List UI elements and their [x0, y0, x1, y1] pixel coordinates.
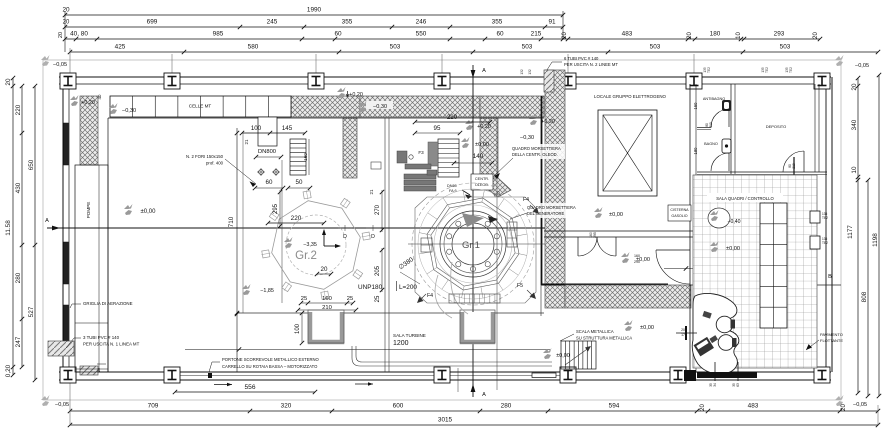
svg-text:CARRELLO SU ROTAIA BASSA – MOT: CARRELLO SU ROTAIA BASSA – MOTORIZZATO	[222, 364, 318, 369]
svg-text:CELLE MT: CELLE MT	[189, 104, 212, 109]
hatched pipe block outside left wall	[48, 341, 74, 356]
bagno wc	[722, 139, 731, 153]
svg-text:60: 60	[334, 31, 342, 38]
svg-text:140: 140	[473, 153, 484, 160]
column blob sala quadri	[708, 208, 730, 228]
svg-text:21: 21	[369, 189, 374, 194]
svg-text:−0,30: −0,30	[520, 135, 534, 141]
bottom dim total 3015	[68, 417, 880, 428]
top wall column 6	[686, 73, 702, 89]
text dn80	[447, 184, 472, 199]
wall junction block	[684, 370, 696, 381]
aeration grille 1	[64, 123, 69, 165]
right wall	[826, 77, 832, 372]
svg-text:580: 580	[248, 44, 259, 51]
wall box te2 a	[810, 211, 828, 223]
tiny dim 20 bottom left	[97, 364, 106, 372]
text sala turbine	[393, 333, 426, 347]
svg-text:±0,00: ±0,00	[609, 212, 623, 218]
label 80 210 b	[788, 163, 796, 169]
tiny label left top 1	[520, 69, 524, 75]
svg-text:160: 160	[303, 153, 308, 161]
svg-text:20: 20	[687, 32, 693, 39]
text deposito	[766, 124, 787, 129]
svg-text:100: 100	[251, 125, 262, 132]
dim 100 rot	[295, 311, 304, 345]
level line bottom hall	[185, 347, 550, 351]
svg-text:100: 100	[295, 323, 301, 334]
hatched leg between bays	[343, 118, 357, 178]
svg-text:6 TUBI PVC # 140: 6 TUBI PVC # 140	[564, 56, 599, 61]
section line B-B horizontal	[690, 274, 841, 285]
svg-text:20: 20	[851, 83, 858, 91]
svg-text:+0,20: +0,20	[81, 100, 95, 106]
svg-text:699: 699	[147, 19, 158, 26]
svg-text:145: 145	[282, 125, 293, 132]
svg-text:340: 340	[851, 119, 858, 130]
dimension row 2	[63, 19, 565, 30]
left dim chain outer	[28, 84, 37, 382]
svg-text:+0,20: +0,20	[349, 92, 363, 98]
label 60 rot	[492, 190, 502, 200]
svg-text:PAVIMENTO: PAVIMENTO	[820, 332, 843, 337]
bottom dim 556	[173, 383, 317, 395]
svg-text:SCALA METALLICA: SCALA METALLICA	[576, 329, 614, 334]
svg-text:TE2: TE2	[765, 67, 769, 73]
svg-text:20: 20	[58, 32, 64, 38]
door rail arrow right	[355, 382, 373, 386]
text 3 tubi pvc	[66, 335, 140, 348]
svg-text:280: 280	[501, 403, 512, 410]
svg-text:FA 6: FA 6	[449, 189, 457, 193]
svg-text:25: 25	[301, 296, 307, 302]
svg-text:160: 160	[634, 254, 640, 258]
label +0,20 band c	[529, 114, 555, 125]
text 6 tubi pvc top	[547, 56, 618, 70]
pit Gr2	[308, 310, 344, 343]
svg-text:247: 247	[15, 336, 22, 347]
svg-text:−3,35: −3,35	[303, 242, 317, 248]
niche DN800	[254, 117, 283, 159]
svg-text:+0,20: +0,20	[541, 119, 555, 125]
dim connector left end	[65, 11, 563, 74]
label F4 tr	[523, 197, 539, 214]
svg-text:N. 2 FORI 150x150: N. 2 FORI 150x150	[186, 154, 224, 159]
svg-text:ANTIBAGNO: ANTIBAGNO	[703, 97, 725, 101]
svg-text:F4: F4	[427, 293, 433, 299]
hatched block bottom near pompe	[80, 366, 98, 375]
text pavimento flottante	[806, 332, 843, 350]
svg-text:20: 20	[97, 368, 101, 372]
label +0,20 band a	[337, 87, 363, 98]
svg-text:60: 60	[266, 179, 273, 186]
door locale double	[578, 237, 616, 256]
label -0,30 celle	[109, 103, 136, 114]
svg-text:1198: 1198	[872, 233, 879, 247]
svg-text:±0,00: ±0,00	[726, 246, 740, 252]
svg-text:503: 503	[780, 44, 791, 51]
svg-text:A: A	[45, 218, 49, 224]
gr1 bottom beam	[449, 294, 500, 303]
svg-text:F5: F5	[517, 283, 523, 289]
svg-text:FLOTTANTE: FLOTTANTE	[820, 338, 843, 343]
gr1 gray arrow	[462, 213, 498, 227]
axis marker gr2	[322, 229, 341, 248]
label diam 380	[397, 256, 420, 284]
door size 165-290	[634, 254, 698, 271]
svg-text:20: 20	[841, 404, 847, 411]
tiny label te2 top 1	[703, 67, 711, 73]
svg-text:20: 20	[5, 78, 12, 86]
svg-text:DN80: DN80	[447, 184, 457, 188]
dim 50 gr2	[286, 179, 312, 190]
svg-text:±0,00: ±0,00	[141, 209, 157, 215]
antibagno sink	[722, 100, 731, 111]
label 0,00 corridor	[621, 252, 650, 263]
thick wall face line bottom	[541, 285, 668, 317]
svg-text:215: 215	[531, 31, 542, 38]
right dim chain mid	[861, 178, 870, 398]
label 0,00 locale	[594, 207, 623, 218]
svg-text:A: A	[482, 68, 486, 74]
label +0,00 gr1	[461, 137, 489, 148]
svg-text:20: 20	[321, 266, 328, 273]
dim 295 rot	[273, 190, 282, 228]
svg-text:246: 246	[416, 19, 427, 26]
tiny label te2 top 3	[785, 67, 793, 73]
hatched wall L bottom	[565, 285, 691, 308]
svg-text:DELLA CENTR. OLEOD.: DELLA CENTR. OLEOD.	[512, 152, 558, 157]
svg-text:prof. 400: prof. 400	[206, 161, 224, 166]
svg-text:556: 556	[244, 384, 255, 391]
hatched pier top 6 tubi	[544, 70, 554, 92]
holes fori 150x150	[257, 168, 280, 176]
text scala metallica	[560, 329, 632, 341]
turbine group Gr.1	[412, 183, 534, 305]
svg-text:+0,20: +0,20	[477, 124, 491, 130]
svg-text:483: 483	[622, 31, 633, 38]
cabinet row	[760, 203, 787, 328]
svg-text:280: 280	[15, 272, 22, 283]
svg-text:20: 20	[63, 20, 70, 26]
svg-text:SU STRUTTURA METALLICA: SU STRUTTURA METALLICA	[576, 336, 632, 341]
svg-text:SALA TURBINE: SALA TURBINE	[393, 333, 426, 338]
vertical line x237 (dim 710)	[228, 128, 243, 372]
svg-text:710: 710	[228, 216, 235, 227]
svg-text:−0,30: −0,30	[373, 104, 387, 110]
svg-text:Gr.1: Gr.1	[462, 240, 480, 251]
svg-text:985: 985	[213, 31, 224, 38]
stairs metal bottom	[561, 341, 596, 369]
label 80 210 a	[705, 122, 713, 128]
pit Gr1	[460, 310, 495, 343]
dim 140 gr1	[452, 153, 494, 165]
bottom wall column 1	[60, 367, 76, 383]
svg-text:550: 550	[416, 31, 427, 38]
text griglia di aerazione	[70, 301, 133, 308]
svg-text:527: 527	[28, 306, 35, 317]
text antibagno	[703, 97, 725, 101]
svg-text:±0,00: ±0,00	[640, 325, 654, 331]
door bagno	[711, 153, 729, 171]
gr1 right plates	[507, 222, 517, 247]
bottom wall column 5	[670, 367, 686, 383]
svg-text:650: 650	[28, 159, 35, 170]
dim 95 gr1	[413, 125, 462, 135]
bay outline Gr1	[415, 197, 536, 303]
gr1 left anchor	[421, 238, 432, 252]
svg-text:220: 220	[15, 104, 22, 115]
threshold mark left wall	[676, 326, 697, 340]
label 180 rot	[693, 147, 698, 155]
svg-text:355: 355	[492, 19, 503, 26]
svg-text:D: D	[371, 234, 375, 240]
svg-text:50: 50	[296, 179, 303, 186]
svg-text:295: 295	[273, 203, 279, 214]
box centr oleod	[471, 174, 493, 190]
vertical rail pair	[385, 118, 389, 372]
svg-text:QUADRO MORSETTIERA: QUADRO MORSETTIERA	[512, 146, 561, 151]
svg-text:160: 160	[322, 296, 332, 302]
section line A-A horizontal	[45, 218, 545, 230]
wall box te2 b	[810, 236, 828, 249]
left dim chain inner	[5, 76, 15, 377]
svg-text:180: 180	[710, 31, 721, 38]
aeration grille 3	[64, 305, 69, 347]
hatched band center	[360, 96, 480, 117]
turbine group Gr.2 future octagon	[261, 190, 370, 299]
top wall column 3	[308, 73, 324, 89]
svg-text:GASOLIO: GASOLIO	[671, 214, 687, 218]
dim 20 gr2	[315, 266, 333, 276]
svg-text:21: 21	[244, 139, 249, 144]
top wall	[59, 77, 831, 84]
svg-text:430: 430	[15, 182, 22, 193]
genset box	[598, 110, 657, 196]
svg-text:BAGNO: BAGNO	[704, 142, 718, 146]
label 0,00 corridor right	[624, 320, 654, 331]
svg-text:−1,85: −1,85	[260, 288, 274, 294]
text quadro morsettiera generatore	[510, 203, 576, 219]
svg-text:F4: F4	[523, 197, 529, 203]
text quadro morsettiera oleod	[494, 144, 565, 179]
right dim chain outer	[872, 73, 881, 398]
svg-text:1200: 1200	[393, 340, 409, 347]
bottom wall column 6	[814, 367, 830, 383]
svg-text:34: 34	[713, 383, 717, 387]
svg-text:D: D	[343, 234, 347, 240]
left dim chain mid	[15, 84, 24, 369]
svg-text:−0,05: −0,05	[853, 402, 867, 408]
label -0,40	[727, 219, 740, 225]
grid connector lines top	[172, 54, 694, 74]
room locale gruppo walls	[544, 84, 696, 372]
top wall column 1	[60, 73, 76, 89]
label 202	[681, 328, 687, 337]
svg-text:GRIGLIA DI AERAZIONE: GRIGLIA DI AERAZIONE	[83, 301, 133, 306]
svg-text:594: 594	[609, 403, 620, 410]
svg-text:503: 503	[522, 44, 533, 51]
dim 100 145	[240, 125, 307, 144]
hall top edge	[108, 117, 544, 119]
gr1 draft tube arcs	[434, 205, 512, 318]
svg-text:CISTERNA: CISTERNA	[670, 208, 689, 212]
label 150 rot	[693, 102, 698, 110]
black beam below desk	[697, 362, 757, 387]
bottom wall column 3	[434, 367, 450, 383]
dim 220 gr1 top	[413, 114, 492, 124]
svg-text:176: 176	[681, 333, 687, 337]
door corridor right wall	[656, 250, 690, 284]
text sala quadri	[707, 193, 783, 202]
dim 60 gr2	[253, 179, 285, 190]
label +0,20 band b	[465, 119, 491, 130]
dimension row 3	[63, 31, 822, 42]
label F5 br	[517, 283, 536, 299]
text portone scorrevole	[208, 357, 320, 378]
svg-text:355: 355	[342, 19, 353, 26]
bottom wall	[59, 372, 831, 380]
svg-text:425: 425	[115, 44, 126, 51]
svg-text:PER USCITA N. 2 LINEE MT: PER USCITA N. 2 LINEE MT	[564, 62, 618, 67]
svg-text:L=200: L=200	[399, 284, 417, 291]
dim 210	[296, 305, 358, 312]
vertical line x458	[457, 368, 459, 392]
dim connector bottom	[70, 382, 878, 425]
hatched leg Gr1 left	[480, 118, 511, 197]
label -1,85	[242, 284, 274, 295]
svg-text:290: 290	[634, 260, 640, 264]
svg-text:25: 25	[375, 295, 381, 302]
svg-text:PER USCITA N. 1 LINEA MT: PER USCITA N. 1 LINEA MT	[83, 342, 140, 347]
svg-text:3 TUBI PVC # 140: 3 TUBI PVC # 140	[83, 335, 120, 340]
control desk with chairs	[692, 294, 739, 374]
svg-text:808: 808	[861, 291, 868, 302]
door deposito	[783, 151, 804, 182]
equipment hydraulic unit	[371, 150, 437, 191]
svg-text:TE2: TE2	[822, 241, 828, 245]
svg-text:3015: 3015	[438, 417, 453, 424]
svg-text:LOCALE GRUPPO ELETTROGENO: LOCALE GRUPPO ELETTROGENO	[594, 94, 667, 99]
hatched wall top-left	[80, 96, 98, 165]
vertical line x497	[496, 118, 498, 390]
svg-text:132: 132	[528, 69, 532, 75]
svg-text:±0,00: ±0,00	[556, 353, 569, 359]
svg-text:CENTR.: CENTR.	[475, 177, 489, 181]
dim 160 stairs	[303, 139, 309, 175]
dim 25 rot	[375, 295, 381, 302]
svg-text:10: 10	[736, 32, 742, 39]
dim 205 rot	[375, 248, 384, 292]
hall left edge	[107, 118, 109, 372]
gr1 center horizontal line	[408, 243, 545, 245]
label -0,30 gr1	[520, 135, 534, 141]
svg-text:25: 25	[347, 296, 353, 302]
svg-text:Gr.2: Gr.2	[295, 250, 317, 262]
stairs Gr2	[290, 139, 306, 175]
svg-text:150: 150	[693, 102, 698, 110]
text n2 fori	[186, 154, 256, 187]
text locale gruppo	[594, 94, 667, 99]
dim 25 160 25	[299, 296, 355, 305]
room POMPE	[75, 165, 108, 372]
svg-text:40, 80: 40, 80	[70, 31, 88, 38]
tiny label te2 top 2	[761, 67, 769, 73]
svg-text:SALA QUADRI / CONTROLLO: SALA QUADRI / CONTROLLO	[716, 196, 774, 201]
svg-text:TE2: TE2	[789, 67, 793, 73]
D-D marks	[338, 225, 380, 240]
label F4 bl	[417, 293, 433, 303]
top wall column 4	[434, 73, 450, 89]
label 0,00 near stairs	[543, 348, 570, 359]
top wall column 2	[164, 73, 180, 89]
svg-text:DEPOSITO: DEPOSITO	[766, 124, 787, 129]
svg-text:F3: F3	[418, 150, 424, 155]
svg-text:−0,30: −0,30	[122, 108, 136, 114]
door size 160-280	[589, 232, 597, 238]
svg-text:0,20: 0,20	[5, 364, 12, 377]
bottom wall column 2	[164, 367, 180, 383]
svg-text:600: 600	[393, 403, 404, 410]
label pm 0,00 hall	[124, 204, 156, 215]
svg-text:−0,05: −0,05	[855, 63, 869, 69]
svg-text:210: 210	[792, 163, 796, 169]
svg-text:B: B	[828, 274, 832, 280]
svg-text:1177: 1177	[847, 225, 854, 239]
dim 270 rot	[369, 189, 384, 232]
text UNP180	[358, 281, 417, 291]
svg-text:220: 220	[447, 114, 458, 121]
text bagno	[704, 142, 718, 146]
svg-text:320: 320	[281, 403, 292, 410]
top wall column 5	[560, 73, 576, 89]
hatched band Gr1 bay	[480, 96, 544, 117]
svg-text:245: 245	[267, 19, 278, 26]
svg-text:202: 202	[681, 328, 687, 332]
section line A vertical	[471, 65, 487, 398]
svg-text:210: 210	[709, 122, 713, 128]
top-left extra 20 labels	[58, 20, 70, 39]
svg-text:220: 220	[291, 215, 302, 222]
hatched band right of celle MT	[291, 96, 360, 117]
svg-text:DN800: DN800	[258, 149, 276, 155]
right dim chain inner	[847, 76, 860, 395]
svg-text:709: 709	[148, 403, 159, 410]
room CELLE MT	[110, 96, 291, 117]
svg-text:−0,05: −0,05	[53, 62, 67, 68]
svg-text:180: 180	[693, 147, 698, 155]
svg-text:503: 503	[390, 44, 401, 51]
svg-text:TE2: TE2	[822, 216, 828, 220]
label 0,00 sala quadri	[710, 241, 740, 252]
svg-text:132: 132	[520, 69, 524, 75]
svg-text:DEL GENERATORE: DEL GENERATORE	[527, 211, 565, 216]
svg-text:20: 20	[62, 7, 70, 14]
label -0,30 band center	[358, 101, 393, 112]
vertical line x282	[281, 160, 283, 303]
svg-text:20: 20	[813, 32, 819, 39]
svg-text:270: 270	[375, 204, 381, 215]
tiny label left top 2	[528, 69, 532, 75]
stairs Gr1	[428, 139, 459, 177]
label -3,35	[284, 237, 317, 248]
bottom dim row 1	[68, 403, 880, 414]
svg-text:295: 295	[593, 232, 597, 238]
dimension row 1 total 1990	[62, 7, 565, 18]
site boundary line -0,05	[41, 55, 869, 408]
svg-text:−0,05: −0,05	[55, 402, 69, 408]
dimension row 4	[68, 44, 880, 55]
